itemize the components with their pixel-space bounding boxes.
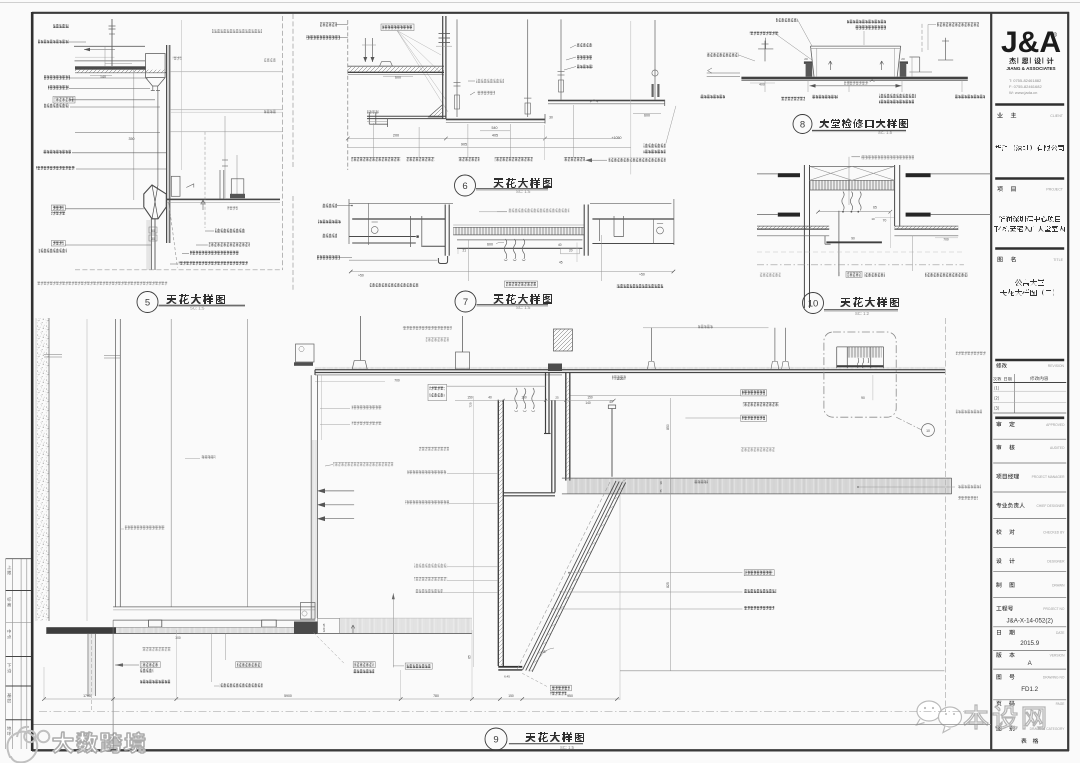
svg-text:JIANG & ASSOCIATES: JIANG & ASSOCIATES: [1006, 66, 1055, 71]
svg-text:40: 40: [488, 396, 492, 400]
left margin table: [5, 559, 7, 749]
svg-text:AUDITED: AUDITED: [1050, 446, 1065, 450]
svg-text:780: 780: [433, 694, 439, 698]
svg-text:850: 850: [666, 424, 670, 430]
svg-text:150: 150: [467, 396, 473, 400]
svg-text:10: 10: [871, 217, 875, 221]
svg-text:90: 90: [851, 236, 855, 240]
svg-text:20: 20: [569, 249, 573, 253]
svg-text:2015.9: 2015.9: [1020, 640, 1039, 647]
svg-text:540: 540: [492, 126, 498, 130]
svg-text:40: 40: [609, 400, 613, 404]
svg-text:J&A: J&A: [1001, 26, 1061, 59]
svg-text:90: 90: [861, 396, 865, 400]
svg-text:DESIGNER: DESIGNER: [1047, 560, 1065, 564]
svg-text:350: 350: [129, 137, 135, 141]
svg-text:600: 600: [644, 114, 650, 118]
svg-text:PROJECT NO: PROJECT NO: [1043, 607, 1065, 611]
svg-text:DATE: DATE: [1056, 631, 1065, 635]
svg-text:825: 825: [666, 582, 670, 588]
svg-text:SC: 1:2: SC: 1:2: [855, 311, 870, 316]
svg-text:SC: 1:5: SC: 1:5: [516, 189, 531, 194]
svg-text:150: 150: [587, 396, 593, 400]
svg-text:725: 725: [469, 402, 473, 407]
svg-text:SC: 1:5: SC: 1:5: [190, 306, 205, 311]
svg-text:905: 905: [461, 142, 467, 146]
svg-text:140: 140: [585, 401, 591, 405]
detail 10 ceiling section: [861, 155, 914, 159]
svg-text:SC: 1:5: SC: 1:5: [560, 745, 575, 750]
svg-text:950: 950: [567, 694, 573, 698]
svg-text:PROJECT MANAGER: PROJECT MANAGER: [1032, 475, 1066, 479]
svg-text:5: 5: [145, 297, 150, 308]
svg-text:40: 40: [558, 243, 562, 247]
svg-text:SC: 1:5: SC: 1:5: [878, 130, 893, 135]
svg-text:CHECKED BY: CHECKED BY: [1043, 531, 1065, 535]
svg-text:10: 10: [926, 429, 930, 433]
svg-text:≈50: ≈50: [639, 272, 645, 276]
svg-text:9: 9: [493, 734, 498, 745]
detail 7 ceiling section: [292, 196, 294, 290]
svg-text:W: www.jada.cn: W: www.jada.cn: [1009, 90, 1037, 95]
detail 8 access panel section: [776, 18, 798, 22]
svg-text:6:45: 6:45: [504, 675, 510, 679]
svg-text:30: 30: [659, 481, 663, 485]
svg-text:70: 70: [883, 219, 887, 223]
detail 6 ceiling section: [292, 14, 294, 168]
svg-text:700: 700: [394, 379, 400, 383]
svg-text:FD1.2: FD1.2: [1021, 686, 1038, 693]
svg-text:50: 50: [151, 229, 155, 233]
svg-text:20: 20: [901, 57, 905, 61]
detail 9 large ceiling section: [36, 318, 49, 621]
svg-text:20: 20: [804, 57, 808, 61]
svg-text:45°: 45°: [542, 650, 548, 654]
svg-text:PROJECT: PROJECT: [1046, 188, 1064, 192]
svg-text:65: 65: [468, 655, 472, 659]
svg-text:CHIEF DESIGNER: CHIEF DESIGNER: [1036, 504, 1065, 508]
svg-text:APPROVED: APPROVED: [1046, 423, 1065, 427]
svg-text:REVISION: REVISION: [1048, 364, 1065, 368]
svg-text:F: 0755-82461682: F: 0755-82461682: [1009, 84, 1042, 89]
svg-text:45: 45: [559, 261, 563, 265]
svg-text:7: 7: [463, 297, 468, 308]
svg-text:75: 75: [659, 489, 663, 493]
svg-text:VERSION: VERSION: [1050, 654, 1065, 658]
svg-text:700: 700: [943, 238, 949, 242]
svg-text:25: 25: [555, 396, 559, 400]
svg-text:150: 150: [508, 694, 514, 698]
svg-text:120 28: 120 28: [322, 623, 326, 632]
svg-text:200: 200: [393, 134, 399, 138]
detail 5 ceiling section: [53, 24, 69, 28]
svg-text:600: 600: [487, 243, 493, 247]
svg-text:1705: 1705: [83, 694, 91, 698]
svg-text:≈50: ≈50: [358, 273, 364, 277]
svg-text:DRAWING NO: DRAWING NO: [1043, 676, 1065, 680]
svg-text:30: 30: [151, 237, 155, 241]
svg-text:DRAWING CATEGORY: DRAWING CATEGORY: [1030, 727, 1066, 731]
svg-text:®: ®: [1052, 31, 1057, 39]
svg-text:405: 405: [492, 134, 498, 138]
svg-text:J&A-X-14-052(2): J&A-X-14-052(2): [1006, 618, 1052, 625]
svg-text:65: 65: [873, 206, 877, 210]
svg-text:30: 30: [549, 116, 553, 120]
svg-text:+1050: +1050: [611, 136, 621, 140]
svg-text:5900: 5900: [284, 694, 292, 698]
svg-text:CLIENT: CLIENT: [1050, 114, 1064, 118]
svg-text:6: 6: [462, 181, 467, 192]
svg-text:PAGE: PAGE: [1056, 702, 1066, 706]
svg-text:8: 8: [800, 119, 805, 130]
watermarks: [7, 727, 49, 762]
svg-text:10: 10: [808, 298, 819, 309]
svg-text:DRAWN: DRAWN: [1052, 584, 1065, 588]
svg-text:SC: 1:5: SC: 1:5: [516, 305, 531, 310]
svg-text:TITLE: TITLE: [1053, 258, 1063, 262]
svg-text:1120: 1120: [616, 377, 623, 381]
svg-text:T: 0755-82461882: T: 0755-82461882: [1009, 78, 1042, 83]
svg-text:190: 190: [521, 396, 527, 400]
svg-text:21: 21: [463, 249, 467, 253]
